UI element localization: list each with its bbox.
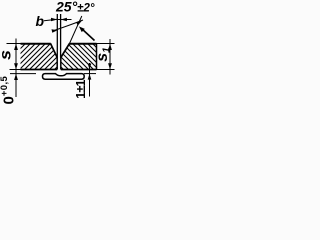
svg-text:1±1: 1±1	[74, 79, 88, 98]
svg-text:s: s	[0, 50, 15, 60]
svg-text:b: b	[36, 13, 45, 29]
svg-text:25°±2°: 25°±2°	[55, 0, 95, 15]
